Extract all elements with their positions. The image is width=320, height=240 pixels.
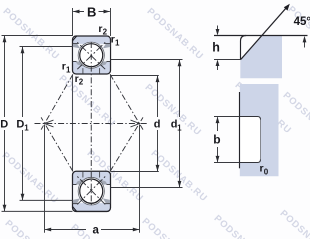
svg-text:D: D: [0, 119, 8, 131]
svg-text:a: a: [93, 225, 100, 237]
svg-text:B: B: [87, 5, 96, 20]
svg-text:d: d: [154, 119, 161, 131]
svg-text:2: 2: [103, 28, 108, 37]
svg-text:b: b: [213, 133, 220, 147]
svg-text:1: 1: [66, 65, 71, 74]
svg-text:1: 1: [24, 123, 29, 132]
svg-text:1: 1: [115, 38, 120, 47]
svg-text:h: h: [212, 41, 220, 55]
svg-text:1: 1: [177, 123, 182, 132]
svg-text:45°: 45°: [294, 16, 310, 28]
svg-text:2: 2: [79, 78, 84, 87]
svg-text:0: 0: [264, 167, 269, 176]
svg-text:D: D: [16, 119, 24, 131]
